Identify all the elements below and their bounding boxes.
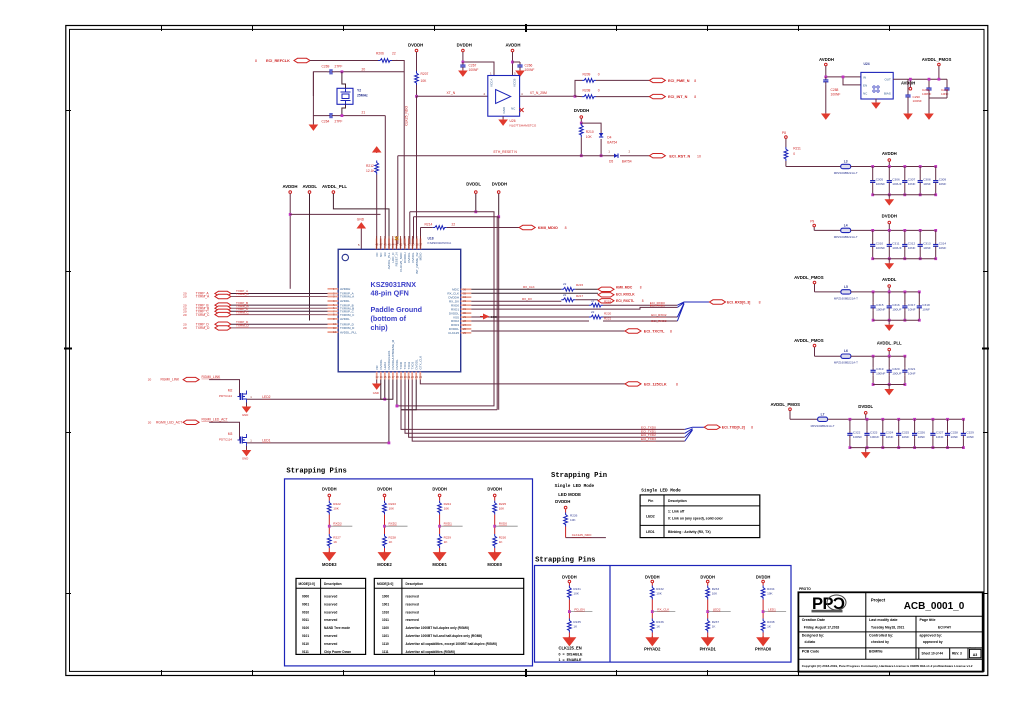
svg-text:reserved: reserved: [324, 602, 337, 606]
ground (PHYAD1): [702, 637, 713, 646]
svg-text:BOMfile: BOMfile: [869, 650, 883, 654]
wire R212 down to chip: [376, 175, 378, 245]
svg-text:Advertise 1000BT full-duplex o: Advertise 1000BT full-duplex only (RGMII…: [406, 626, 469, 630]
svg-text:reserved: reserved: [406, 610, 419, 614]
svg-text:10K: 10K: [570, 518, 576, 522]
wire OUT rail: [893, 78, 947, 80]
wire to inductor L6: [815, 355, 841, 357]
svg-text:PHYAD0: PHYAD0: [755, 647, 772, 652]
wire from ECI_REFCLK to R206: [310, 60, 378, 62]
svg-text:R206: R206: [376, 52, 384, 56]
resistor R222 10K: [327, 501, 331, 515]
svg-text:AVDDH: AVDDH: [340, 287, 350, 291]
resistor R233 10K: [706, 586, 710, 600]
svg-text:R234: R234: [767, 587, 775, 591]
svg-text:1101: 1101: [382, 634, 389, 638]
svg-text:AVDDL: AVDDL: [882, 277, 897, 282]
svg-text:100UF: 100UF: [870, 435, 879, 439]
power source pin: [813, 344, 816, 347]
connector KMII_MDC: [598, 287, 614, 291]
svg-text:LED1: LED1: [646, 530, 655, 534]
wire XT vertical down to chip: [416, 96, 418, 244]
no-connect X on NC pin: [520, 108, 524, 112]
svg-text:10K: 10K: [573, 592, 579, 596]
svg-text:8: 8: [640, 285, 642, 289]
wire TXRM_C to chip: [231, 314, 328, 316]
svg-text:RXD1: RXD1: [444, 522, 453, 526]
wire R209 to ECI_PME_N: [596, 79, 649, 81]
wire M2 drain LED2: [247, 398, 385, 400]
svg-text:C313: C313: [923, 241, 931, 245]
capacitor C323 100UF: [866, 418, 869, 421]
capacitor C309 10NF: [934, 165, 937, 168]
svg-text:100UF: 100UF: [892, 246, 901, 250]
svg-text:DVDDL: DVDDL: [858, 404, 873, 409]
svg-text:L3: L3: [844, 160, 848, 164]
svg-text:DVDDH: DVDDH: [457, 43, 472, 48]
svg-text:C266: C266: [525, 64, 533, 68]
svg-text:20: 20: [183, 295, 187, 299]
svg-text:C267: C267: [469, 64, 477, 68]
wire XO vertical down to chip: [384, 116, 386, 244]
svg-text:R209: R209: [583, 73, 591, 77]
svg-text:AVDDH: AVDDH: [819, 57, 834, 62]
svg-text:MODE[3:0]: MODE[3:0]: [377, 582, 393, 586]
wire TXRM_A to chip: [231, 296, 328, 298]
svg-text:R238: R238: [767, 620, 775, 624]
ground (CLK125_EN): [564, 637, 575, 646]
wire AVDDL down: [309, 194, 311, 321]
svg-text:0000: 0000: [302, 595, 309, 599]
ground (MODE1): [434, 551, 445, 560]
svg-text:10NF: 10NF: [908, 182, 916, 186]
svg-text:L7: L7: [821, 412, 825, 416]
svg-text:DVDDH: DVDDH: [756, 575, 771, 580]
svg-text:0110: 0110: [302, 642, 309, 646]
svg-text:Description: Description: [668, 499, 687, 503]
svg-text:10NF: 10NF: [923, 246, 931, 250]
svg-text:LED2: LED2: [713, 607, 721, 611]
svg-text:PDTC114: PDTC114: [219, 394, 232, 398]
svg-text:chip): chip): [371, 323, 389, 332]
svg-text:KMII_MDIO: KMII_MDIO: [538, 226, 558, 230]
svg-text:AVDDL_PLL: AVDDL_PLL: [322, 184, 347, 189]
svg-text:27PF: 27PF: [335, 120, 343, 124]
wire AVDDH branch right: [290, 213, 380, 215]
wire LED2 pin down: [384, 380, 386, 400]
ground (U24 pad): [875, 99, 877, 103]
strap LED MODE pullup: [564, 506, 567, 509]
svg-text:25MHz: 25MHz: [357, 94, 368, 98]
chip bottom pin stubs: [377, 372, 421, 380]
ground (PHYAD2): [647, 637, 658, 646]
svg-text:RGMII_LED_ACT: RGMII_LED_ACT: [156, 421, 182, 425]
svg-text:Creation Date: Creation Date: [802, 618, 825, 622]
svg-text:C310: C310: [876, 241, 884, 245]
svg-text:P8: P8: [782, 131, 786, 135]
svg-text:TXRM_C: TXRM_C: [236, 310, 249, 314]
svg-text:Format: Format: [970, 647, 977, 650]
crystal loop bottom wire with C264: [313, 72, 327, 116]
svg-text:C325: C325: [902, 430, 910, 434]
svg-text:MODE2: MODE2: [377, 562, 392, 567]
svg-text:R224: R224: [444, 502, 452, 506]
junction strap node PD_EN: [568, 610, 571, 613]
svg-text:GND: GND: [242, 413, 248, 417]
resistor R212 12.1K: [373, 147, 381, 153]
wire DVDDH rail: [498, 194, 500, 217]
svg-text:R210: R210: [586, 130, 594, 134]
svg-text:Last modify date: Last modify date: [869, 618, 898, 622]
junction XT_N node: [415, 95, 418, 98]
svg-text:Description: Description: [406, 582, 424, 586]
svg-text:20: 20: [183, 313, 187, 317]
capacitor C326 10NF: [913, 418, 916, 421]
capacitor C267 100NF: [460, 62, 465, 70]
connector ECI_RST_N: [649, 154, 665, 158]
svg-text:CLK25_NDO: CLK25_NDO: [405, 106, 409, 126]
svg-text:C318: C318: [922, 303, 930, 307]
resistor R223 10K: [383, 501, 387, 515]
svg-text:ECI_125CLK: ECI_125CLK: [644, 383, 667, 387]
wire fork up to R209: [575, 80, 582, 96]
wires RXD2/RXD3 rows: [471, 320, 589, 322]
svg-text:C269: C269: [322, 65, 330, 69]
power source pin: [789, 408, 792, 411]
cap bank bottom rail: [873, 319, 919, 321]
svg-text:Advertise all capabilities (RG: Advertise all capabilities (RGMII): [406, 650, 455, 654]
svg-text:C309: C309: [939, 178, 947, 182]
resistor R229 1K: [438, 534, 442, 548]
wire MDC row: [471, 288, 561, 290]
wire to inductor L4: [814, 229, 841, 231]
wire vertical bus right of chip: [493, 212, 495, 406]
svg-text:XT_N_25M: XT_N_25M: [530, 91, 547, 95]
svg-text:C306: C306: [892, 178, 900, 182]
svg-text:PHYAD2: PHYAD2: [644, 647, 661, 652]
svg-text:R222: R222: [333, 502, 341, 506]
crystal loop top wire with C269: [313, 72, 327, 96]
svg-text:R208: R208: [583, 89, 591, 93]
wire M3 drain LED1: [247, 442, 389, 444]
ground (U26): [502, 116, 504, 119]
title block outer: [798, 592, 982, 671]
resistor R230 1K: [493, 534, 497, 548]
svg-text:R220: R220: [604, 312, 612, 316]
resistor R235 1K: [568, 619, 572, 633]
wire XT_N to buffer input: [417, 95, 488, 97]
svg-text:R212: R212: [366, 164, 374, 168]
svg-text:20: 20: [148, 421, 152, 425]
svg-text:AVDDL_PLL: AVDDL_PLL: [877, 341, 902, 346]
chip top pin stubs: [377, 239, 421, 250]
svg-text:22: 22: [563, 293, 567, 297]
strapping box PHYAD: [535, 566, 792, 663]
capacitor C328 10NF: [946, 418, 949, 421]
svg-text:KMII_MDC: KMII_MDC: [616, 285, 633, 289]
wire TXRP_C to chip: [231, 310, 328, 312]
svg-text:10NF: 10NF: [939, 246, 947, 250]
ground arrow right (paddle): [483, 314, 490, 320]
svg-text:DVDDH: DVDDH: [322, 487, 337, 492]
svg-text:48-pin QFN: 48-pin QFN: [371, 289, 409, 298]
svg-text:RGMII_LINK: RGMII_LINK: [202, 375, 221, 379]
svg-text:10NF: 10NF: [908, 307, 916, 311]
svg-text:EN: EN: [863, 83, 867, 87]
svg-text:1100: 1100: [382, 626, 389, 630]
wire MDIO to connector: [447, 227, 520, 229]
wire node to D4 branch: [581, 123, 601, 133]
svg-text:U26: U26: [510, 119, 516, 123]
svg-text:100NF: 100NF: [876, 182, 885, 186]
svg-text:BIAS: BIAS: [884, 91, 891, 95]
junction strap node RXD1: [438, 525, 441, 528]
svg-text:100UF: 100UF: [892, 182, 901, 186]
capacitor C319 100NF: [872, 355, 875, 358]
svg-text:0: 0: [793, 152, 795, 156]
svg-text:DVDDH: DVDDH: [377, 487, 392, 492]
resistor R226 10K: [564, 513, 568, 527]
svg-text:100NF: 100NF: [469, 68, 479, 72]
capacitor C310 100NF: [871, 229, 874, 232]
svg-text:1001: 1001: [382, 602, 389, 606]
connector ECI_125CLK: [625, 382, 641, 386]
svg-text:L5: L5: [844, 285, 848, 289]
svg-text:P9: P9: [810, 220, 814, 224]
svg-text:GND: GND: [373, 391, 379, 395]
svg-text:0001: 0001: [302, 602, 309, 606]
svg-text:ECI_RXCLK: ECI_RXCLK: [616, 292, 635, 296]
table MODE[3:0] part1: [296, 578, 366, 654]
bus merge to ECI_TXD connector: [685, 427, 704, 441]
cap bank bottom rail: [873, 258, 936, 260]
svg-text:ECI PHY: ECI PHY: [938, 625, 952, 629]
svg-text:AVDDH: AVDDH: [283, 184, 298, 189]
capacitor C312 10NF: [903, 229, 906, 232]
svg-text:C323: C323: [870, 430, 878, 434]
wire RGMII_LINK to M2 gate: [209, 380, 239, 397]
svg-text:Copyright (C) 2018-2019, Pure: Copyright (C) 2018-2019, Pure Progress C…: [802, 664, 973, 668]
svg-text:MPZ1608B221A-T: MPZ1608B221A-T: [811, 424, 835, 428]
ground (cap bank): [888, 385, 890, 389]
svg-text:Y2: Y2: [357, 89, 361, 93]
svg-text:10K: 10K: [444, 507, 450, 511]
svg-text:ECI_RXD1: ECI_RXD1: [650, 304, 665, 308]
svg-text:D4: D4: [607, 136, 611, 140]
svg-text:GND: GND: [242, 457, 248, 461]
capacitor C325 10NF: [897, 418, 900, 421]
svg-text:REV. 3: REV. 3: [952, 652, 962, 656]
svg-text:AVDDL_PLL: AVDDL_PLL: [340, 330, 357, 334]
svg-text:27PF: 27PF: [335, 65, 343, 69]
wire DVDDL bottom pins to rails: [396, 380, 398, 406]
svg-text:100NF: 100NF: [876, 372, 885, 376]
crystal pin wires: [342, 72, 346, 89]
svg-text:1: Link off: 1: Link off: [668, 510, 685, 514]
svg-text:C326: C326: [918, 430, 926, 434]
svg-text:10NF: 10NF: [951, 435, 959, 439]
svg-text:TXRM_D: TXRM_D: [196, 326, 210, 330]
svg-text:R215: R215: [576, 283, 584, 287]
svg-text:10NF: 10NF: [908, 372, 916, 376]
svg-text:Advertise all capabilities, ex: Advertise all capabilities, except 1000B…: [406, 642, 497, 646]
svg-text:PD_EN: PD_EN: [574, 607, 584, 611]
capacitor C318 10NF: [918, 291, 921, 294]
svg-text:R232: R232: [656, 587, 664, 591]
chip left pin stubs: [328, 289, 339, 332]
wire AVDDL_PMOS down to rail: [938, 66, 940, 79]
svg-text:Page title: Page title: [920, 618, 936, 622]
wire RXD0/RXD1 rows with resistors: [471, 304, 589, 306]
svg-text:ECI_TXD[0..3]: ECI_TXD[0..3]: [722, 426, 745, 430]
wire inductor to cap rail: [851, 355, 905, 357]
svg-text:ECI_RST_N: ECI_RST_N: [669, 154, 690, 158]
svg-text:DVDDH: DVDDH: [882, 214, 897, 219]
svg-text:10NF: 10NF: [918, 435, 926, 439]
svg-text:checked by: checked by: [871, 640, 889, 644]
svg-text:MPZ1608B221A-T: MPZ1608B221A-T: [834, 361, 858, 365]
svg-text:NL07TSHAMSTCG: NL07TSHAMSTCG: [510, 124, 537, 128]
svg-text:8: 8: [694, 79, 696, 83]
capacitor C314 10NF: [934, 229, 937, 232]
svg-text:ECI_RXCTL: ECI_RXCTL: [616, 299, 634, 303]
wire R207 down to XT junction: [416, 85, 418, 96]
svg-text:AVDDL_PMOS: AVDDL_PMOS: [922, 57, 952, 62]
svg-text:22: 22: [392, 52, 396, 56]
svg-text:Designed by:: Designed by:: [802, 634, 825, 638]
svg-text:C311: C311: [892, 241, 899, 245]
svg-text:NAND Tree mode: NAND Tree mode: [324, 626, 350, 630]
svg-text:TXRM_A: TXRM_A: [236, 292, 249, 296]
svg-text:reserved: reserved: [324, 634, 337, 638]
svg-text:TXRM_C: TXRM_C: [196, 313, 210, 317]
svg-text:TXRM_A: TXRM_A: [196, 295, 210, 299]
svg-text:Blinking : Activity (RX, TX): Blinking : Activity (RX, TX): [668, 530, 711, 534]
ground (C290): [907, 100, 909, 113]
resistor R227 1K: [327, 534, 331, 548]
svg-text:MPZ1608B221A-T: MPZ1608B221A-T: [834, 171, 858, 175]
capacitor C315 100NF: [872, 291, 875, 294]
svg-text:R231: R231: [573, 587, 581, 591]
connector ECI_TXD[0..3]: [704, 425, 720, 429]
svg-text:10K: 10K: [421, 79, 428, 83]
resistor R237 1K: [706, 619, 710, 633]
ground (M2): [246, 403, 248, 407]
svg-text:R211: R211: [793, 147, 801, 151]
wire DVDDL rail: [475, 194, 477, 212]
svg-text:100NF: 100NF: [525, 68, 535, 72]
capacitor C327 10NF: [932, 418, 935, 421]
resistor R238 1K: [761, 619, 765, 633]
wire DVDDH down to node: [580, 119, 582, 124]
svg-text:Friday, August 17,2018: Friday, August 17,2018: [804, 625, 840, 629]
svg-text:22: 22: [563, 282, 567, 286]
svg-text:MODE1: MODE1: [432, 562, 447, 567]
title block grid: [798, 592, 982, 659]
capacitor C320 100UF: [888, 355, 891, 358]
sheet border frame inner: [70, 29, 985, 671]
svg-text:10NF: 10NF: [886, 435, 894, 439]
wire DVDDH to VCCA pin: [463, 52, 494, 76]
junction strap node LED1: [762, 610, 765, 613]
junction strap node RXD0: [493, 525, 496, 528]
svg-text:DVDDH: DVDDH: [432, 487, 447, 492]
svg-text:0101: 0101: [302, 634, 309, 638]
crystal Y2 25MHz: [337, 88, 353, 104]
svg-text:RX_DV: RX_DV: [522, 297, 532, 301]
svg-text:R228: R228: [389, 535, 397, 539]
wire RESET_N down to chip: [397, 156, 399, 244]
svg-text:DVDDH: DVDDH: [408, 43, 423, 48]
svg-text:reserved: reserved: [406, 595, 419, 599]
svg-text:R226: R226: [570, 514, 578, 518]
svg-text:1 = ENABLE: 1 = ENABLE: [559, 658, 582, 662]
svg-text:reserved: reserved: [324, 642, 337, 646]
svg-text:ACB_0001_0: ACB_0001_0: [904, 601, 965, 612]
svg-text:PROTO: PROTO: [799, 587, 811, 591]
svg-text:ECI_RXD[0..3]: ECI_RXD[0..3]: [727, 301, 750, 305]
svg-text:C308: C308: [923, 178, 931, 182]
svg-text:Advertise 1000BT full-and half: Advertise 1000BT full-and half-duplex on…: [406, 634, 483, 638]
junction strap node RXD2: [383, 525, 386, 528]
NC marker on top pin: [395, 237, 399, 241]
svg-text:R223: R223: [389, 502, 397, 506]
wire to inductor L3: [786, 166, 841, 168]
junction strap node RXD3: [328, 525, 331, 528]
resistor R236 1K: [650, 619, 654, 633]
svg-text:ECI_INT_N: ECI_INT_N: [668, 95, 688, 99]
svg-text:ECI_PME_N: ECI_PME_N: [668, 79, 690, 83]
svg-text:MPZ1608B221A-T: MPZ1608B221A-T: [834, 296, 858, 300]
ground (M3): [246, 446, 248, 450]
ground (MODE0): [489, 551, 500, 560]
svg-text:C312: C312: [908, 241, 916, 245]
svg-text:20: 20: [362, 68, 366, 72]
svg-text:reserved: reserved: [406, 602, 419, 606]
svg-text:XT_N: XT_N: [447, 91, 456, 95]
svg-text:DVDDH: DVDDH: [562, 575, 577, 580]
svg-text:R230: R230: [499, 535, 507, 539]
svg-text:C324: C324: [886, 430, 894, 434]
svg-text:10K: 10K: [499, 507, 505, 511]
svg-text:C321: C321: [908, 367, 916, 371]
svg-text:DVDDH: DVDDH: [574, 108, 589, 113]
svg-text:RXD3: RXD3: [333, 522, 342, 526]
capacitor C329 10NF: [962, 418, 965, 421]
svg-text:22: 22: [591, 310, 595, 314]
svg-text:C327: C327: [936, 430, 944, 434]
wire TXRP_D to chip: [231, 323, 328, 325]
junction strap node LED2: [706, 610, 709, 613]
svg-text:reserved: reserved: [406, 618, 419, 622]
svg-text:R235: R235: [573, 620, 581, 624]
wire R208 to ECI_INT_N: [596, 96, 649, 98]
capacitor C322 100NF: [849, 418, 852, 421]
svg-text:10K: 10K: [656, 592, 662, 596]
svg-text:ECI_RXD3: ECI_RXD3: [651, 319, 666, 323]
svg-text:L4: L4: [844, 223, 848, 227]
svg-text:10NF: 10NF: [922, 307, 930, 311]
svg-text:MODE3: MODE3: [322, 562, 337, 567]
svg-text:10NF: 10NF: [908, 246, 916, 250]
resistor R232 10K: [650, 586, 654, 600]
wire C269 to junction and right: [335, 71, 404, 73]
svg-text:CLK125: CLK125: [448, 331, 459, 335]
svg-text:C288: C288: [831, 88, 839, 92]
ground (chip pin 13): [376, 380, 378, 384]
svg-text:0: Link on (any speed), solid: 0: Link on (any speed), solid color: [668, 517, 724, 521]
svg-text:Strapping Pin: Strapping Pin: [551, 472, 607, 480]
